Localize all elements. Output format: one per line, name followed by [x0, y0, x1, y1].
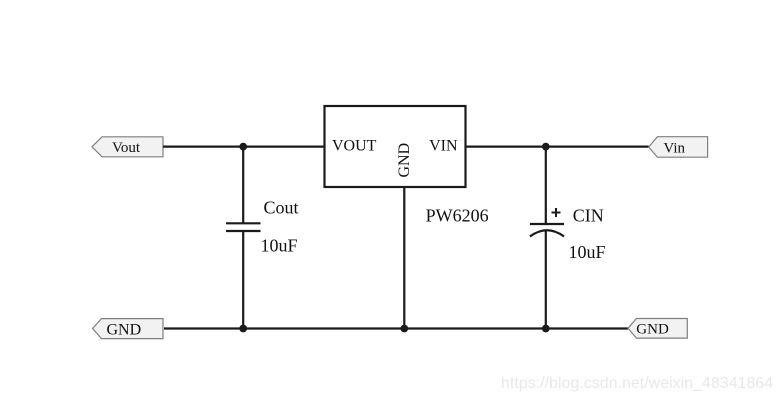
- svg-text:10uF: 10uF: [569, 242, 606, 262]
- svg-text:PW6206: PW6206: [426, 206, 489, 226]
- svg-text:Vout: Vout: [112, 140, 141, 156]
- wire Cout bottom plate to ground rail: [242, 232, 244, 329]
- svg-text:VIN: VIN: [429, 138, 458, 155]
- junction node CIN/ground: [542, 325, 550, 333]
- capacitor C2 CIN polarized: [530, 208, 564, 237]
- port flag Vout: [92, 137, 163, 157]
- svg-text:Cout: Cout: [264, 198, 299, 218]
- port flag GND left: [93, 319, 163, 339]
- svg-text:GND: GND: [636, 321, 669, 337]
- svg-text:GND: GND: [396, 143, 413, 178]
- svg-text:GND: GND: [107, 321, 142, 338]
- junction node at Vin/CIN: [542, 143, 550, 151]
- wire U1 VIN pin to CIN node: [466, 146, 546, 148]
- junction node Cout/ground: [239, 325, 247, 333]
- svg-text:https://blog.csdn.net/weixin_4: https://blog.csdn.net/weixin_48341864: [501, 375, 773, 392]
- port flag Vin: [649, 137, 708, 158]
- op-amp U1 PW6206 body: [325, 106, 466, 187]
- wire U1 GND pin to ground rail: [403, 187, 405, 329]
- svg-text:10uF: 10uF: [261, 235, 298, 255]
- wire Vout flag to U1 VOUT pin: [163, 146, 325, 148]
- svg-text:Vin: Vin: [663, 140, 685, 156]
- capacitor C1 Cout plates: [226, 223, 261, 231]
- junction node U1 GND/ground: [400, 325, 408, 333]
- junction node at Vout/Cout: [239, 143, 247, 151]
- wire CIN bottom plate to ground rail: [545, 231, 547, 329]
- wire node to Cout top plate: [242, 147, 244, 223]
- port flag GND right: [628, 319, 687, 339]
- wire node to CIN top plate: [545, 147, 547, 223]
- ground rail wire: [164, 327, 628, 329]
- svg-text:CIN: CIN: [573, 205, 604, 225]
- svg-text:VOUT: VOUT: [332, 138, 377, 155]
- wire node to Vin flag: [546, 146, 649, 148]
